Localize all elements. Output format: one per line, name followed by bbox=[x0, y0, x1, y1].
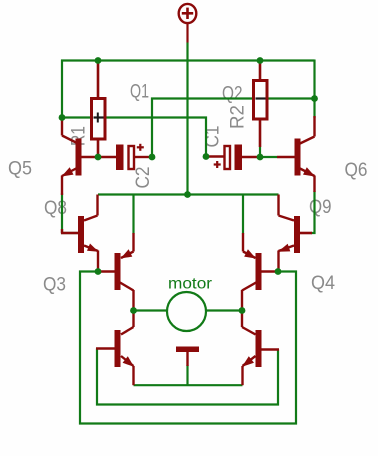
svg-text:C2: C2 bbox=[133, 167, 154, 189]
svg-text:Q8: Q8 bbox=[44, 198, 67, 219]
svg-text:Q4: Q4 bbox=[311, 273, 335, 294]
wire: green part of Q3 emitter feed x=133.5 bbox=[132, 195, 134, 234]
wire: left rail x=62 from top rail to node (62,117.5) bbox=[61, 60, 63, 118]
transistor Q7 (bottom left) bbox=[96, 311, 134, 386]
wire: power vertical x=187.5 down to node at y=194.5 bbox=[186, 43, 188, 195]
transistor Q10 (bottom right) bbox=[242, 311, 279, 386]
svg-text:R2: R2 bbox=[228, 105, 249, 129]
node (62,117.5) bbox=[59, 114, 66, 121]
svg-text:Q2: Q2 bbox=[222, 84, 243, 105]
svg-text:Q1: Q1 bbox=[130, 82, 149, 103]
node (206,156.5) bbox=[203, 153, 210, 160]
wire: Q5 emitter to Q8 base, x=62 bbox=[62, 193, 78, 233]
transistor Q8 bbox=[61, 195, 99, 272]
wire: x=314.5 from node (314.5,98.5) down bbox=[313, 99, 315, 119]
transistor Q9 bbox=[278, 195, 312, 272]
node (98,60.5) bbox=[95, 57, 102, 64]
wire: Qbl base x=97 down to rail y=404.5 across to Qbr base x=278 bbox=[97, 349, 278, 405]
svg-text:Q3: Q3 bbox=[43, 275, 66, 296]
wire: green part of Q4 emitter feed x=243 bbox=[242, 195, 244, 234]
resistor R1 bbox=[92, 63, 106, 157]
transistor Q4 bbox=[242, 233, 278, 311]
transistor Q3 bbox=[98, 233, 134, 311]
wire: ground stem green part bbox=[186, 365, 188, 385]
svg-text:Q6: Q6 bbox=[345, 160, 368, 181]
node (98,271.5) bbox=[95, 268, 102, 275]
svg-text:Q9: Q9 bbox=[309, 197, 332, 218]
motor M1 bbox=[167, 276, 213, 332]
wire: motor left lead bbox=[134, 309, 169, 311]
node (152,157) bbox=[149, 154, 156, 161]
wire: mid rail y=194.5 from Q8 collector to Q9 collector bbox=[98, 193, 279, 195]
svg-text:motor: motor bbox=[168, 276, 213, 293]
wire: C2 right plate to riser node bbox=[149, 156, 152, 158]
capacitor C1 bbox=[206, 145, 260, 171]
wire: R2 bottom green part bbox=[259, 147, 261, 157]
wire: motor right lead bbox=[205, 309, 242, 311]
transistor Q6 bbox=[277, 116, 315, 192]
node (187.5,194.5) bbox=[184, 191, 191, 198]
capacitor C2 bbox=[116, 144, 149, 170]
wire: top rail y=60.5 bbox=[61, 59, 315, 61]
wire: C1/R2 node green to Q6 base bbox=[260, 156, 277, 158]
transistor Q5 bbox=[62, 116, 117, 195]
node (260,157) bbox=[257, 154, 264, 161]
wire: bottom emitter rail y=385.2 bbox=[134, 384, 243, 386]
wire: right rail x=314.5 from top rail to node (314.5,98.5) bbox=[313, 60, 315, 99]
wire: horizontal y=117.5 from node (62,117.5) to corner (206,117.5) then down to C1 node bbox=[62, 118, 206, 157]
node (133.5,310.5) bbox=[130, 307, 137, 314]
wire: node (98,271.5) to left drop x=80 down to bottom rail y=423.5 bbox=[80, 272, 296, 424]
svg-text:Q5: Q5 bbox=[8, 159, 32, 180]
node (260,60.5) bbox=[257, 57, 264, 64]
ground symbol bbox=[176, 347, 199, 367]
node (98,157) bbox=[95, 154, 102, 161]
power supply +V symbol bbox=[179, 4, 197, 43]
resistor R2 bbox=[254, 63, 268, 147]
node (278,271.5) bbox=[275, 268, 282, 275]
node (242,310.5) bbox=[239, 307, 246, 314]
node (314.5,98.5) bbox=[311, 95, 318, 102]
wire: horizontal y=98.5 from corner x=152 to node (314.5,98.5) bbox=[152, 99, 315, 158]
wire: Q6 emitter to Q9 base, x=314.5 bbox=[311, 191, 315, 233]
